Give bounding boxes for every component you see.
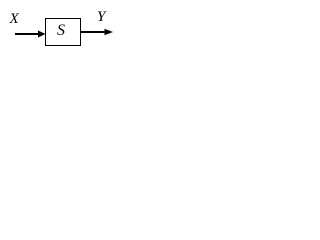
wire output arrow shaft	[81, 31, 105, 33]
wire input arrow head	[38, 31, 46, 38]
svg-text:S: S	[57, 22, 65, 39]
wire input arrow shaft	[15, 33, 39, 35]
system block S box	[46, 19, 81, 46]
svg-text:X: X	[9, 11, 20, 27]
svg-text:Y: Y	[97, 9, 107, 25]
wire output arrow head	[105, 29, 114, 35]
